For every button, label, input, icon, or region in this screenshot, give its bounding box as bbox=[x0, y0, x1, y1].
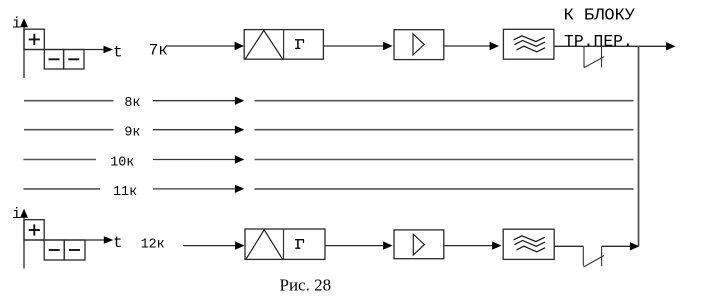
wire row 11k long bbox=[255, 188, 634, 190]
arrowhead into A2 bbox=[383, 241, 392, 249]
wire row 9k long bbox=[255, 129, 634, 131]
block U1 divider bbox=[283, 30, 285, 60]
svg-text:Рис. 28: Рис. 28 bbox=[280, 275, 332, 294]
block U1 label Г bbox=[295, 40, 304, 49]
break symbol top tick 2 bbox=[601, 46, 603, 67]
svg-text:ТР.ПЕР.: ТР.ПЕР. bbox=[564, 32, 633, 51]
svg-text:К БЛОКУ: К БЛОКУ bbox=[564, 6, 636, 25]
waveform W1 plus pulse box bbox=[24, 29, 44, 49]
wire row 10k arrow segment bbox=[153, 159, 236, 161]
svg-text:t: t bbox=[113, 234, 123, 252]
svg-text:t: t bbox=[113, 43, 123, 61]
waveform W1 plus sign bbox=[29, 34, 40, 45]
arrowhead into F1 bbox=[490, 42, 499, 50]
block U2 divider bbox=[283, 229, 285, 259]
wire row 9k arrow segment bbox=[153, 129, 236, 131]
wire break to bus bbox=[602, 245, 631, 247]
svg-text:i: i bbox=[12, 206, 21, 223]
waveform W2 axis i (vertical) bbox=[23, 217, 25, 269]
bus vertical line bbox=[638, 46, 640, 246]
block F2 filter (12k) bbox=[503, 229, 554, 259]
svg-text:i: i bbox=[12, 15, 21, 32]
block F2 filter wavy line 3 bbox=[516, 246, 545, 252]
svg-text:11к: 11к bbox=[113, 185, 137, 200]
block F1 filter wavy line 1 bbox=[514, 36, 545, 42]
svg-text:8к: 8к bbox=[124, 96, 140, 111]
block U2 label Г bbox=[295, 240, 304, 249]
arrowhead into bus bbox=[630, 242, 639, 250]
svg-text:7к: 7к bbox=[149, 42, 168, 60]
arrowhead row 10k bbox=[235, 155, 244, 163]
wire A1 to F1 bbox=[444, 45, 491, 47]
arrowhead output right bbox=[666, 42, 675, 50]
wire F1 to output bbox=[554, 45, 667, 47]
waveform W2 axis arrow right bbox=[104, 236, 114, 243]
block U2 triangle symbol bbox=[246, 230, 283, 259]
waveform W2 minus pulse box 2 bbox=[64, 240, 85, 260]
svg-text:12к: 12к bbox=[141, 238, 165, 253]
waveform W2 minus sign 2 bbox=[69, 249, 80, 251]
block U1 triangle symbol bbox=[245, 30, 282, 59]
wire row 8k arrow segment bbox=[153, 100, 236, 102]
waveform W2 minus pulse box 1 bbox=[44, 240, 64, 260]
waveform W1 minus sign 2 bbox=[68, 58, 79, 60]
wire row 10k long bbox=[255, 159, 634, 161]
arrowhead row 11k bbox=[235, 185, 244, 193]
block A1 amplifier (7k) bbox=[394, 30, 444, 60]
svg-text:10к: 10к bbox=[110, 155, 134, 170]
waveform W1 minus pulse box 1 bbox=[44, 50, 63, 70]
wire row 9k left bbox=[24, 129, 114, 131]
waveform W1 axis i (vertical) bbox=[23, 26, 25, 78]
break symbol bottom tick 1 bbox=[582, 246, 584, 265]
break symbol top slash bbox=[584, 57, 604, 68]
break symbol top tick 1 bbox=[583, 46, 585, 67]
wire channel 7k input bbox=[166, 45, 236, 47]
wire A2 to F2 bbox=[444, 245, 494, 247]
waveform W2 plus pulse box bbox=[24, 220, 44, 240]
break symbol bottom tick 2 bbox=[601, 246, 603, 266]
block F1 filter wavy line 3 bbox=[516, 46, 545, 52]
waveform W2 axis t (horizontal) bbox=[24, 239, 106, 241]
block F1 filter (7k) bbox=[503, 29, 554, 59]
waveform W2 axis arrow up bbox=[20, 209, 28, 218]
waveform W1 axis t (horizontal) bbox=[24, 49, 105, 51]
block U1 modulator+generator (7k) bbox=[244, 30, 323, 60]
block F1 filter wavy line 2 bbox=[514, 41, 545, 47]
waveform W2 minus sign 1 bbox=[49, 249, 60, 251]
waveform W2 plus sign bbox=[29, 224, 40, 235]
wire row 8k long bbox=[255, 100, 634, 102]
block A2 amplifier triangle bbox=[413, 234, 424, 255]
arrowhead row 9k bbox=[235, 126, 244, 134]
wire F2 to break bbox=[554, 245, 583, 247]
wire channel 12k input bbox=[183, 245, 237, 247]
block F2 filter wavy line 2 bbox=[514, 241, 545, 247]
arrowhead row 8k bbox=[235, 97, 244, 105]
block F2 filter wavy line 1 bbox=[514, 236, 545, 242]
block A1 amplifier triangle bbox=[413, 34, 424, 55]
arrowhead channel 12k input bbox=[235, 241, 244, 249]
block A2 amplifier (12k) bbox=[394, 230, 444, 259]
arrowhead channel 7k input bbox=[235, 42, 244, 50]
wire U2 to A2 bbox=[325, 245, 385, 247]
wire row 11k left bbox=[23, 188, 100, 190]
block U2 modulator+generator (12k) bbox=[245, 229, 325, 259]
wire row 8k left bbox=[24, 100, 114, 102]
arrowhead into F2 bbox=[492, 241, 501, 249]
svg-text:9к: 9к bbox=[124, 126, 140, 141]
waveform W1 minus pulse box 2 bbox=[64, 50, 84, 70]
waveform W1 axis arrow up bbox=[20, 18, 28, 27]
wire row 11k arrow segment bbox=[153, 188, 236, 190]
wire U1 to A1 bbox=[323, 45, 384, 47]
waveform W1 minus sign 1 bbox=[49, 58, 60, 60]
break symbol bottom slash bbox=[584, 256, 605, 268]
waveform W1 axis arrow right bbox=[104, 46, 114, 53]
arrowhead into A1 bbox=[383, 42, 392, 50]
wire row 10k left bbox=[23, 159, 96, 161]
